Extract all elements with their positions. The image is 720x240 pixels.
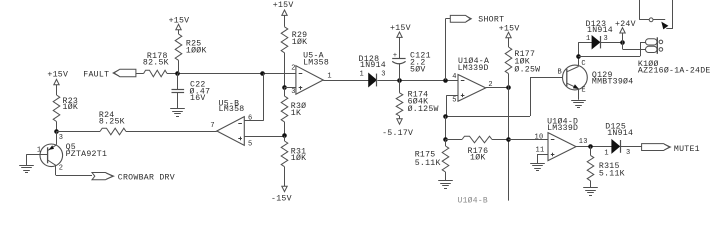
svg-text:82.5K: 82.5K	[143, 59, 169, 68]
label MUTE1	[674, 145, 700, 154]
svg-text:2: 2	[291, 64, 295, 72]
svg-text:13: 13	[579, 138, 588, 146]
svg-text:PZTA92T1: PZTA92T1	[66, 150, 108, 159]
node junction U104D out - R315	[588, 144, 593, 149]
pin 5 label U5-B	[248, 141, 252, 149]
node junction D128-C121-R174	[397, 78, 402, 83]
wire Q129 emitter to ground	[578, 89, 580, 100]
capacitor C121 (polarized)	[392, 52, 405, 80]
wire U104-A output	[486, 87, 509, 89]
svg-text:+15V: +15V	[47, 71, 68, 80]
pin 11 label U104-D	[536, 147, 545, 155]
node junction Q129 collector - D123 - relay	[576, 54, 581, 59]
resistor R24 8.25K	[100, 128, 126, 135]
op-amp U104-A LM339D	[458, 75, 486, 102]
label R24 value	[99, 111, 125, 127]
resistor R175 5.11K	[442, 140, 449, 181]
transistor Q129	[563, 65, 588, 90]
power +24V	[615, 20, 636, 42]
label Q129	[592, 71, 634, 86]
wire SHORT to pin 4 node	[445, 19, 450, 81]
diode D128 1N914	[369, 74, 377, 87]
svg-text:1: 1	[604, 150, 608, 158]
node junction R29-R30-U5A pin3	[282, 85, 287, 90]
power +15V (above R23)	[47, 71, 68, 95]
resistor R30 1K	[281, 87, 288, 136]
power -5.17V (below R174)	[382, 119, 413, 138]
svg-text:+24V: +24V	[615, 20, 636, 29]
pin 7 label U5-B	[210, 122, 214, 130]
svg-text:+15V: +15V	[169, 16, 190, 25]
svg-text:8.25K: 8.25K	[99, 118, 125, 127]
wire U5-B pin 6	[244, 73, 263, 120]
svg-text:LM358: LM358	[303, 59, 329, 68]
label D125	[605, 122, 633, 138]
node junction R178-R25-C22	[175, 71, 180, 76]
wire +24V node to coil pin	[623, 42, 647, 49]
wire R24 to U5-B pin 7	[126, 131, 217, 133]
label U104-B (faded)	[458, 197, 489, 206]
svg-text:FAULT: FAULT	[83, 71, 109, 80]
pin 4 label U104-A	[452, 73, 456, 81]
ground (R315)	[583, 188, 598, 196]
ground (Q129 emitter)	[571, 101, 586, 108]
label R174 value	[408, 91, 439, 114]
node junction base-route	[443, 114, 448, 119]
resistor R174 604K	[396, 80, 403, 119]
label R31 value	[291, 147, 307, 162]
svg-text:LM339D: LM339D	[547, 124, 578, 133]
resistor R176 10K	[445, 136, 508, 143]
svg-text:U1Ø4-B: U1Ø4-B	[458, 197, 489, 206]
resistor R315 5.11K	[587, 146, 594, 187]
wire Q5 emitter to node	[56, 131, 58, 145]
pin 2 label U5-A	[291, 64, 295, 72]
svg-text:B: B	[558, 69, 562, 77]
svg-text:6: 6	[248, 115, 252, 123]
svg-text:2: 2	[59, 164, 63, 172]
power +15V (above C121)	[390, 24, 411, 58]
relay K100 coil	[646, 37, 663, 54]
wire output node to U104-B	[508, 140, 510, 201]
svg-text:1ØK: 1ØK	[291, 153, 307, 163]
svg-text:1N914: 1N914	[607, 129, 633, 138]
svg-text:Ø.125W: Ø.125W	[408, 104, 439, 114]
svg-text:+15V: +15V	[390, 24, 411, 33]
svg-text:MMBT39Ø4: MMBT39Ø4	[592, 77, 634, 87]
label FAULT	[83, 71, 109, 80]
svg-text:5: 5	[248, 141, 252, 149]
wire U104-A pin 5	[445, 95, 458, 116]
svg-text:11: 11	[536, 147, 545, 155]
wire R23 node to R24	[56, 131, 100, 133]
svg-text:1ØK: 1ØK	[292, 37, 308, 47]
diode D125 1N914	[612, 140, 621, 153]
ground (Q5 base)	[19, 166, 34, 173]
svg-text:3: 3	[381, 70, 385, 78]
label K100	[638, 59, 711, 75]
wire pin5 node to Q129 base	[445, 78, 566, 117]
svg-text:1K: 1K	[291, 109, 301, 118]
ground (U104-D pin 11)	[530, 164, 545, 171]
label R30 value	[291, 101, 307, 118]
svg-text:3: 3	[59, 134, 63, 142]
wire U104-D output	[576, 146, 612, 148]
svg-text:C: C	[581, 60, 585, 68]
offpage connector SHORT	[450, 15, 471, 22]
label U5-A	[303, 51, 329, 67]
wire to U5-A pin 3	[284, 87, 296, 89]
wire U5-B pin 5	[244, 136, 284, 138]
label Q5	[66, 143, 108, 159]
power +15V (above R25)	[169, 16, 190, 34]
resistor R23 10K	[53, 95, 60, 131]
svg-text:+15V: +15V	[273, 1, 294, 10]
pin 3 label U5-A	[291, 88, 295, 96]
pin E label Q129	[581, 86, 585, 94]
wire U104-D pin 11	[537, 155, 548, 164]
wire D125 to MUTE1	[621, 146, 642, 148]
svg-text:3: 3	[626, 149, 630, 157]
relay K100 contact	[639, 0, 673, 29]
pin 3 label Q5	[59, 134, 63, 142]
wire D128 to U104-A pin 4	[377, 80, 458, 82]
label U104-A	[458, 56, 490, 73]
resistor R25 100K	[175, 34, 182, 73]
label D128	[359, 55, 386, 70]
svg-text:SHORT: SHORT	[478, 16, 504, 25]
op-amp U5-A LM358	[296, 66, 323, 95]
svg-text:1ØK: 1ØK	[63, 102, 79, 112]
pin 6 label U5-B	[248, 115, 252, 123]
wire U5-A output to D128	[323, 80, 369, 82]
svg-text:16V: 16V	[190, 94, 206, 103]
pin C label Q129	[581, 60, 585, 68]
resistor R178 82.5K	[144, 70, 167, 77]
svg-text:5: 5	[452, 97, 456, 105]
wire to U104-D pin 10	[508, 139, 548, 141]
node junction FAULT line / U5-B pin6	[260, 71, 265, 76]
power +15V (above R177)	[499, 25, 520, 47]
svg-text:1ØK: 1ØK	[470, 153, 486, 163]
svg-text:-15V: -15V	[271, 194, 292, 203]
pin 3 label D123	[604, 35, 608, 43]
pin 2 label Q5	[59, 164, 63, 172]
label R315 value	[599, 162, 625, 179]
node junction R23-R24-Q5	[54, 129, 59, 134]
power +15V (above R29)	[273, 1, 294, 27]
svg-text:AZ216Ø-1A-24DE: AZ216Ø-1A-24DE	[638, 65, 711, 75]
label R175 value	[415, 151, 441, 168]
wire FAULT tag to R178	[136, 73, 144, 75]
wire Q5 base	[26, 154, 47, 165]
label R178 value	[143, 52, 169, 68]
label R176 value	[468, 147, 489, 163]
svg-text:1ØØK: 1ØØK	[186, 46, 207, 56]
label U104-D	[547, 116, 578, 133]
pin 3 label D125	[626, 149, 630, 157]
svg-text:E: E	[581, 86, 585, 94]
pin 1 label D123	[586, 35, 590, 43]
op-amp U104-D LM339D	[548, 133, 576, 161]
svg-text:+15V: +15V	[499, 25, 520, 34]
wire R178 to U5-A pin 2	[167, 73, 296, 75]
resistor R29 10K	[281, 27, 288, 87]
label R29 value	[292, 31, 308, 47]
resistor R31 10K	[281, 136, 288, 186]
svg-text:1: 1	[37, 147, 41, 155]
label C121 value	[410, 52, 431, 75]
svg-text:1N914: 1N914	[587, 26, 613, 35]
label CROWBAR DRV	[118, 173, 175, 182]
label D123	[586, 20, 613, 35]
capacitor C22	[172, 73, 185, 108]
svg-text:7: 7	[210, 122, 214, 130]
svg-text:5.11K: 5.11K	[415, 159, 441, 168]
svg-text:-5.17V: -5.17V	[382, 129, 413, 138]
pin B label Q129	[558, 69, 562, 77]
svg-text:5.11K: 5.11K	[599, 169, 625, 178]
svg-text:LM358: LM358	[219, 105, 245, 114]
svg-text:1: 1	[586, 35, 590, 43]
pin 10 label U104-D	[535, 134, 544, 142]
pin 13 label U104-D	[579, 138, 588, 146]
offpage connector MUTE1	[642, 144, 671, 151]
svg-text:CROWBAR DRV: CROWBAR DRV	[118, 173, 175, 182]
pin 1 label D125	[604, 150, 608, 158]
label C22 value	[190, 81, 211, 103]
wire Q5 collector to tag	[56, 165, 93, 175]
label R25 value	[186, 40, 207, 56]
svg-text:1: 1	[360, 71, 364, 79]
svg-text:Ø.25W: Ø.25W	[514, 64, 540, 74]
pin 1 label U5-A	[327, 72, 331, 80]
node junction U104A out - R177	[506, 85, 511, 90]
node junction +24V - D123 - relay coil	[620, 40, 625, 45]
ground (C22)	[170, 109, 185, 117]
wire U104A output node down	[508, 88, 510, 140]
wire collector node to coil pin	[578, 42, 646, 57]
node junction R30-R31-U5B pin5	[282, 133, 287, 138]
node junction R175-R176	[443, 137, 448, 142]
resistor R177 10K	[505, 47, 512, 88]
svg-text:MUTE1: MUTE1	[674, 145, 700, 154]
svg-text:3: 3	[291, 88, 295, 96]
node junction SHORT-U104A pin4	[443, 78, 448, 83]
svg-text:LM339D: LM339D	[458, 64, 489, 73]
svg-text:10: 10	[535, 134, 544, 142]
pin 1 label Q5	[37, 147, 41, 155]
pin 2 label U104-A	[488, 81, 492, 89]
transistor Q5	[40, 144, 63, 167]
label SHORT	[478, 16, 504, 25]
label R23 value	[63, 97, 79, 112]
wire Q129 collector	[578, 42, 580, 66]
pin 5 label U104-A	[452, 97, 456, 105]
diode D123 1N914	[592, 36, 600, 48]
wire pin5 node down	[445, 116, 447, 140]
offpage connector FAULT	[113, 69, 136, 77]
pin 1 label D128	[360, 71, 364, 79]
op-amp U5-B LM358	[217, 117, 245, 146]
label U5-B	[219, 99, 245, 114]
pin 3 label D128	[381, 70, 385, 78]
wire D123 to +24V node	[601, 42, 623, 44]
ground (R175)	[438, 181, 453, 189]
svg-text:1N914: 1N914	[360, 61, 386, 70]
offpage connector CROWBAR DRV	[92, 173, 114, 180]
svg-text:4: 4	[452, 73, 456, 81]
power -15V (below R31)	[271, 186, 292, 203]
wire collector node to D123	[578, 42, 592, 44]
svg-text:5ØV: 5ØV	[410, 64, 426, 74]
label R177 value	[514, 50, 540, 74]
node junction R176-U104D pin10	[506, 137, 511, 142]
svg-text:1: 1	[327, 72, 331, 80]
